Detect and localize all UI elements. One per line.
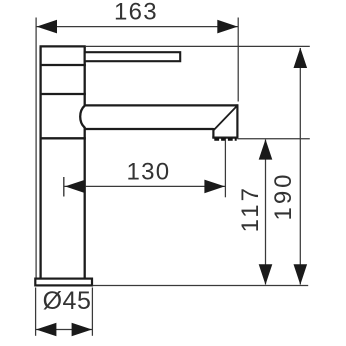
svg-text:190: 190 [270,171,297,220]
arrow 163 left [37,20,57,34]
dimension line 117 [265,140,267,285]
extension line outlet bottom (117) [237,138,309,140]
arrow 190 up [294,48,308,68]
svg-text:130: 130 [127,159,171,186]
arrow 117 down [259,264,273,284]
arrow 130 left [65,180,85,194]
arrow d45 left [36,323,56,337]
faucet body right edge with spout fillet [80,46,85,278]
extension line right (163) [237,18,239,102]
outlet right edge [236,104,238,137]
extension line left (163) [35,18,37,278]
svg-text:117: 117 [237,185,264,232]
svg-text:163: 163 [114,0,158,26]
arrow 163 right [217,20,237,34]
dimension line d45 [36,329,92,331]
spout bottom line [86,128,214,130]
aerator dashes [214,138,236,141]
spout top line [85,104,239,106]
outlet bottom [212,137,238,139]
outlet left drop [212,128,214,138]
base flange [35,279,92,286]
arrow d45 right [72,323,92,337]
arrow 117 up [259,139,273,159]
dimension line 190 [299,48,301,285]
extension line outlet axis (130) [224,139,226,197]
outlet diagonal cut [214,106,237,130]
extension line flange left (d45) [35,288,37,336]
dimension line 130 [65,185,226,187]
faucet body left edge [39,46,41,278]
arrow 130 right [204,180,224,194]
extension line flange right (d45) [91,288,93,336]
arrow 190 down [294,264,308,284]
svg-text:Ø45: Ø45 [43,287,92,315]
extension line top (190) [86,45,310,47]
body joint line below spout [40,137,86,139]
lever handle [85,52,181,61]
dimension line 163 [36,26,238,28]
tick at body axis (130) [63,177,65,197]
cap top line [40,45,86,47]
cap bottom line [40,64,86,66]
baseline extension [93,285,309,287]
ring line [40,93,86,95]
